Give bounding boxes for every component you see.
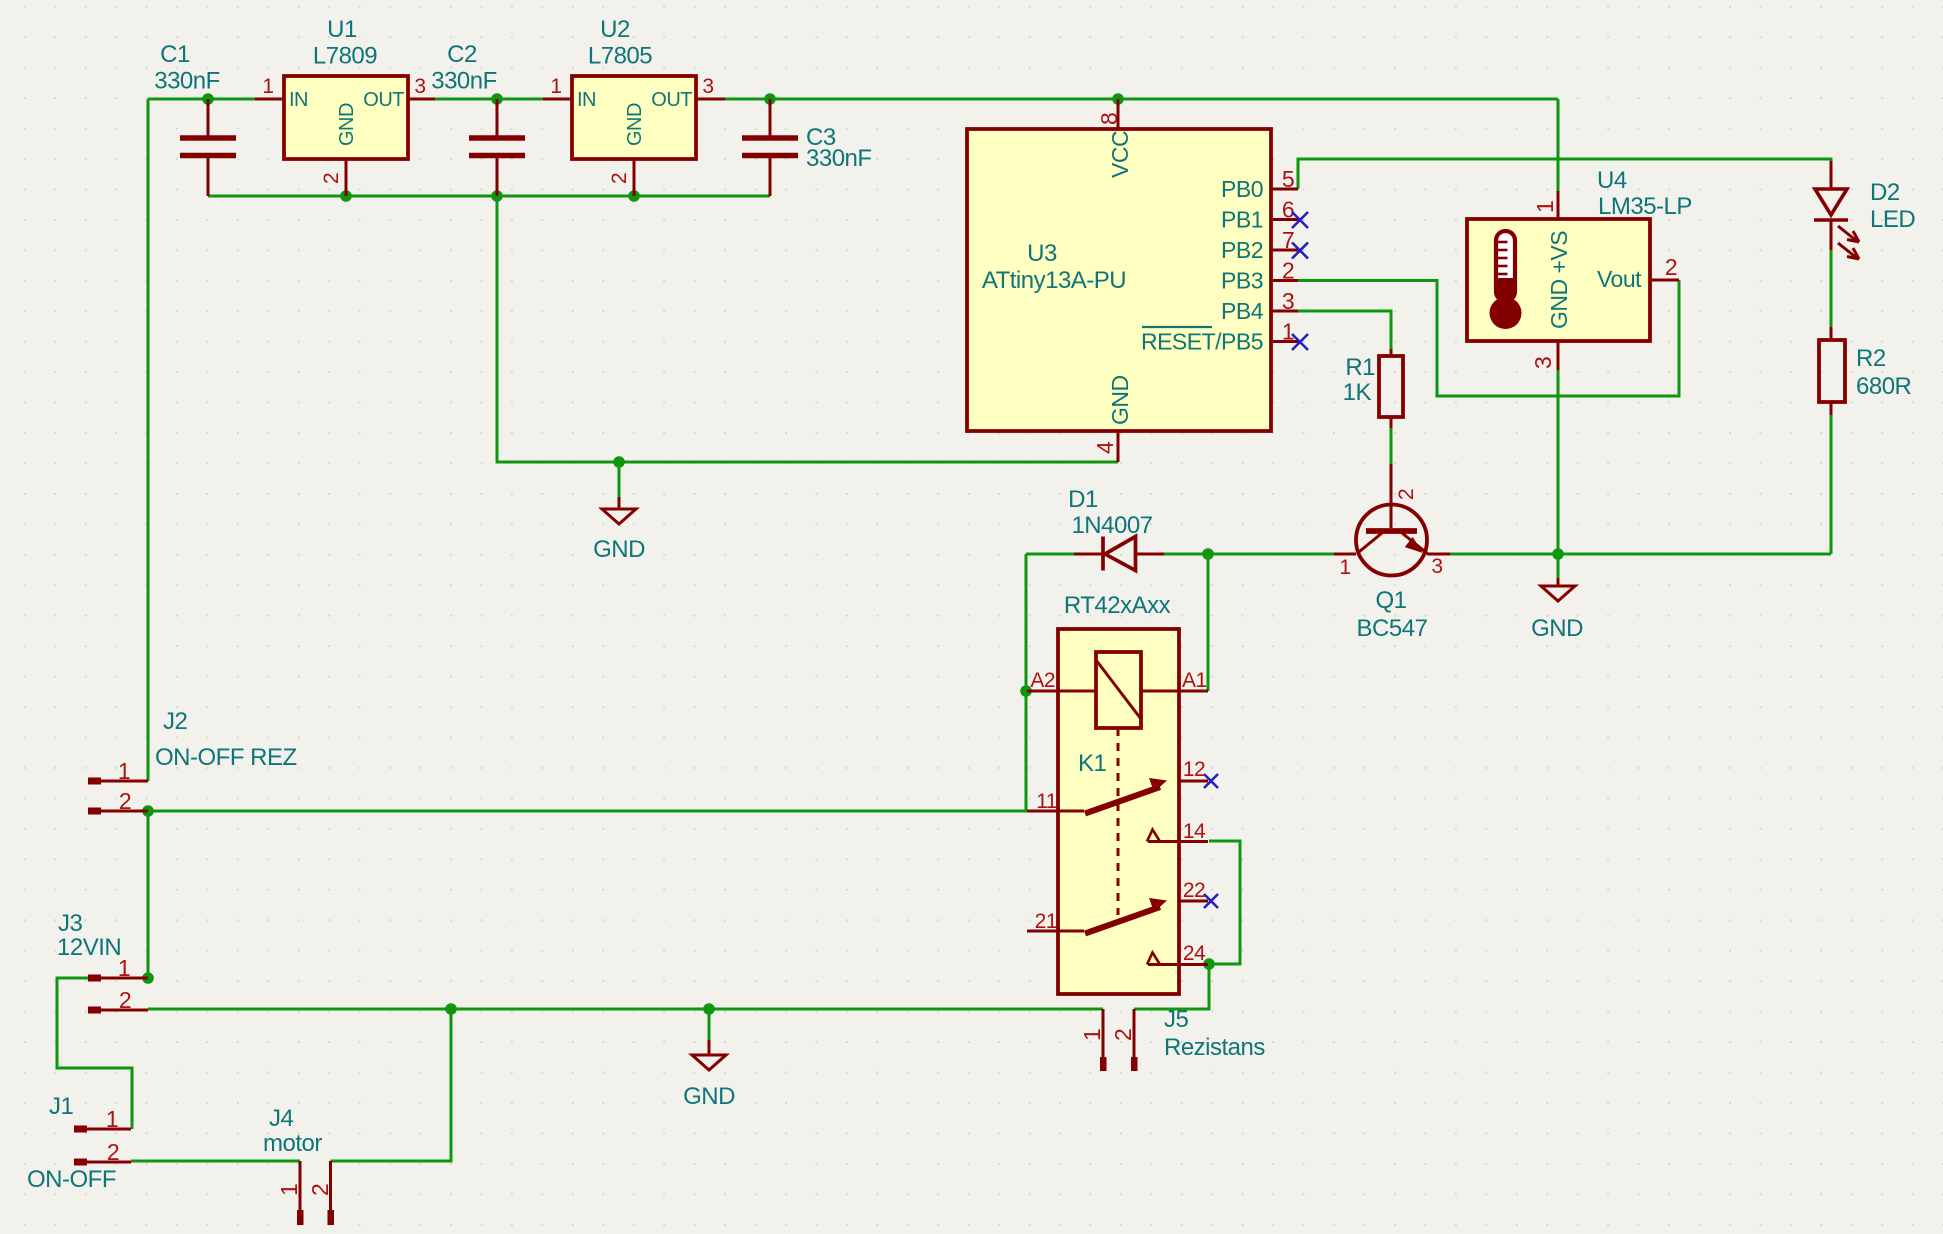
svg-text:VCC: VCC <box>1107 131 1133 178</box>
svg-text:3: 3 <box>1530 357 1556 369</box>
svg-text:K1: K1 <box>1078 750 1107 777</box>
svg-text:1: 1 <box>1282 319 1294 345</box>
svg-text:12: 12 <box>1183 758 1205 781</box>
svg-text:330nF: 330nF <box>806 145 872 172</box>
svg-text:U3: U3 <box>1027 240 1057 267</box>
svg-text:R2: R2 <box>1856 345 1886 372</box>
svg-text:2: 2 <box>320 173 343 184</box>
svg-text:L7805: L7805 <box>588 43 652 70</box>
svg-text:2: 2 <box>1395 489 1418 500</box>
svg-text:2: 2 <box>1110 1029 1136 1041</box>
svg-text:BC547: BC547 <box>1357 615 1428 642</box>
svg-text:1: 1 <box>1532 201 1558 213</box>
svg-text:14: 14 <box>1183 820 1206 843</box>
svg-text:7: 7 <box>1282 227 1294 253</box>
svg-text:GND: GND <box>1531 615 1583 642</box>
svg-text:4: 4 <box>1092 441 1118 454</box>
svg-text:L7809: L7809 <box>313 43 377 70</box>
svg-text:D1: D1 <box>1068 486 1098 513</box>
svg-text:11: 11 <box>1036 790 1057 813</box>
svg-text:GND: GND <box>683 1083 735 1110</box>
svg-text:2: 2 <box>107 1139 119 1165</box>
svg-text:2: 2 <box>1665 254 1677 280</box>
svg-text:motor: motor <box>263 1130 322 1157</box>
svg-text:2: 2 <box>119 987 131 1013</box>
svg-text:PB4: PB4 <box>1221 298 1264 324</box>
svg-text:PB0: PB0 <box>1221 176 1263 202</box>
svg-text:12VIN: 12VIN <box>57 934 121 961</box>
svg-text:2: 2 <box>608 173 631 184</box>
svg-text:1N4007: 1N4007 <box>1071 512 1152 539</box>
svg-text:3: 3 <box>414 75 425 98</box>
svg-text:J2: J2 <box>163 708 188 735</box>
svg-text:A1: A1 <box>1182 669 1207 692</box>
svg-text:R1: R1 <box>1345 354 1375 381</box>
svg-text:C1: C1 <box>160 41 190 68</box>
svg-text:1: 1 <box>262 75 273 98</box>
svg-text:J5: J5 <box>1164 1006 1189 1033</box>
svg-text:GND +VS: GND +VS <box>1546 231 1572 329</box>
svg-text:5: 5 <box>1282 166 1294 192</box>
svg-text:IN: IN <box>577 89 596 111</box>
svg-text:U2: U2 <box>600 16 630 43</box>
svg-text:3: 3 <box>702 75 713 98</box>
svg-text:Vout: Vout <box>1597 266 1642 292</box>
svg-text:PB1: PB1 <box>1221 207 1263 233</box>
svg-text:PB2: PB2 <box>1221 237 1263 263</box>
svg-text:24: 24 <box>1183 942 1206 965</box>
svg-text:J1: J1 <box>49 1093 74 1120</box>
svg-text:ATtiny13A-PU: ATtiny13A-PU <box>982 267 1126 294</box>
svg-text:GND: GND <box>624 103 646 146</box>
svg-text:680R: 680R <box>1856 373 1912 400</box>
svg-text:LED: LED <box>1870 206 1915 233</box>
svg-text:GND: GND <box>593 536 645 563</box>
svg-text:U4: U4 <box>1597 167 1627 194</box>
svg-text:OUT: OUT <box>363 89 404 111</box>
svg-text:U1: U1 <box>327 16 357 43</box>
svg-text:RESET/PB5: RESET/PB5 <box>1141 329 1263 355</box>
svg-text:Q1: Q1 <box>1375 587 1406 614</box>
svg-text:Rezistans: Rezistans <box>1164 1034 1265 1061</box>
svg-text:22: 22 <box>1183 879 1205 902</box>
svg-text:8: 8 <box>1096 113 1122 125</box>
svg-text:330nF: 330nF <box>431 68 497 95</box>
svg-text:1: 1 <box>1339 556 1350 579</box>
svg-text:C2: C2 <box>447 41 477 68</box>
svg-text:3: 3 <box>1282 288 1294 314</box>
svg-text:3: 3 <box>1431 555 1442 578</box>
svg-text:2: 2 <box>1282 258 1294 284</box>
svg-text:1: 1 <box>276 1184 302 1196</box>
svg-text:1: 1 <box>118 758 130 784</box>
svg-text:21: 21 <box>1035 910 1057 933</box>
svg-text:2: 2 <box>307 1184 333 1196</box>
svg-text:PB3: PB3 <box>1221 268 1263 294</box>
svg-text:1: 1 <box>118 955 130 981</box>
svg-text:A2: A2 <box>1030 669 1055 692</box>
svg-text:D2: D2 <box>1870 179 1900 206</box>
svg-text:6: 6 <box>1282 197 1294 223</box>
svg-text:2: 2 <box>119 788 131 814</box>
svg-text:IN: IN <box>289 89 308 111</box>
svg-text:1: 1 <box>550 75 561 98</box>
svg-text:J3: J3 <box>58 910 83 937</box>
svg-text:1: 1 <box>106 1106 118 1132</box>
svg-text:1: 1 <box>1079 1029 1105 1041</box>
svg-text:330nF: 330nF <box>154 68 220 95</box>
svg-text:1K: 1K <box>1343 379 1372 406</box>
svg-text:ON-OFF REZ: ON-OFF REZ <box>155 744 297 771</box>
svg-text:OUT: OUT <box>651 89 692 111</box>
svg-text:J4: J4 <box>269 1105 294 1132</box>
svg-text:GND: GND <box>1107 375 1133 425</box>
svg-text:LM35-LP: LM35-LP <box>1598 193 1692 220</box>
svg-text:GND: GND <box>336 103 358 146</box>
svg-text:RT42xAxx: RT42xAxx <box>1064 592 1171 619</box>
svg-text:ON-OFF: ON-OFF <box>27 1166 116 1193</box>
